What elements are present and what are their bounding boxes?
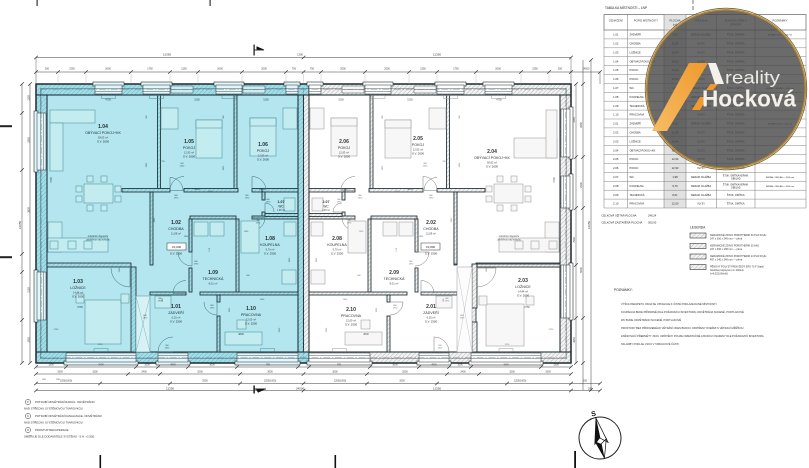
- svg-text:S.V. 2500: S.V. 2500: [170, 252, 182, 256]
- svg-text:OBÝVACÍ POKOJ+KK: OBÝVACÍ POKOJ+KK: [85, 131, 121, 135]
- svg-text:12650: 12650: [587, 220, 591, 229]
- svg-text:KERAM. OBKLAD v. 1500 mm: KERAM. OBKLAD v. 1500 mm: [766, 176, 795, 179]
- svg-text:2250: 2250: [532, 68, 538, 71]
- svg-text:POKOJ: POKOJ: [630, 157, 639, 161]
- svg-text:1.05: 1.05: [613, 68, 619, 72]
- svg-text:3850: 3850: [573, 337, 576, 343]
- svg-text:POTRUBÍ ODVĚTRÁNÍ RADIÁL. ODVĚ: POTRUBÍ ODVĚTRÁNÍ RADIÁL. ODVĚTRÁNO: [35, 399, 96, 404]
- svg-text:1300: 1300: [297, 53, 303, 57]
- svg-text:1250: 1250: [420, 68, 426, 71]
- svg-text:WC: WC: [278, 205, 284, 209]
- svg-text:3400: 3400: [503, 364, 509, 367]
- svg-text:7500: 7500: [49, 177, 53, 183]
- svg-text:3150: 3150: [263, 98, 269, 102]
- svg-text:4750: 4750: [496, 98, 502, 102]
- svg-text:PROSTUP REKUPERACE: PROSTUP REKUPERACE: [35, 428, 69, 432]
- svg-text:2.01: 2.01: [426, 304, 436, 310]
- svg-text:2000: 2000: [105, 68, 111, 71]
- svg-text:POKOJ: POKOJ: [630, 68, 639, 72]
- svg-text:2.02: 2.02: [613, 130, 619, 134]
- svg-text:1250: 1250: [181, 68, 187, 71]
- svg-text:S.V. 2500: S.V. 2500: [345, 322, 357, 326]
- svg-text:2.04: 2.04: [487, 149, 497, 155]
- svg-text:ŠTUK. OMÍTKA KERAM.: ŠTUK. OMÍTKA KERAM.: [723, 175, 749, 178]
- svg-text:CHODBA: CHODBA: [168, 227, 184, 231]
- svg-text:CHODBA: CHODBA: [423, 227, 439, 231]
- svg-text:7500: 7500: [552, 177, 556, 183]
- svg-text:1.04: 1.04: [98, 124, 108, 130]
- svg-text:1500: 1500: [57, 371, 63, 374]
- svg-text:PRACOVNA: PRACOVNA: [241, 313, 262, 317]
- svg-text:2.09: 2.09: [613, 193, 619, 197]
- svg-text:CHODBA: CHODBA: [630, 41, 641, 45]
- svg-text:S.V. 2500: S.V. 2500: [245, 321, 257, 325]
- svg-text:1.08: 1.08: [265, 236, 275, 242]
- svg-text:OBKLAD: OBKLAD: [731, 186, 741, 189]
- svg-text:POKOJ: POKOJ: [183, 146, 195, 150]
- svg-text:2.08: 2.08: [613, 184, 619, 188]
- svg-text:OBÝVACÍ POKOJ+KK: OBÝVACÍ POKOJ+KK: [474, 156, 510, 160]
- svg-text:S.V. 2600: S.V. 2600: [517, 293, 529, 297]
- svg-text:ŠTUK. OMÍTKA KERAM.: ŠTUK. OMÍTKA KERAM.: [723, 183, 749, 186]
- svg-text:300,00: 300,00: [648, 221, 657, 225]
- svg-text:246,24: 246,24: [648, 214, 657, 218]
- svg-text:S.V. 2500: S.V. 2500: [170, 319, 182, 323]
- svg-text:1.03: 1.03: [613, 50, 619, 54]
- svg-text:200: 200: [588, 388, 593, 391]
- svg-text:3150: 3150: [338, 98, 344, 102]
- svg-text:Hocková: Hocková: [702, 86, 796, 112]
- svg-text:ŠTUK. OMÍTKA: ŠTUK. OMÍTKA: [727, 203, 745, 206]
- svg-text:OBKLAD: OBKLAD: [731, 178, 741, 181]
- svg-text:1500: 1500: [342, 187, 348, 191]
- svg-text:KERAM. DLAŽBA: KERAM. DLAŽBA: [691, 176, 711, 179]
- svg-text:POPIS MÍSTNOSTI: POPIS MÍSTNOSTI: [634, 19, 658, 23]
- svg-text:1.04: 1.04: [613, 59, 619, 63]
- svg-text:±0,000: ±0,000: [426, 245, 435, 249]
- svg-text:R: R: [27, 428, 29, 432]
- svg-text:12,93: 12,93: [672, 157, 679, 161]
- svg-text:3750: 3750: [524, 305, 530, 309]
- svg-text:497 x 140 x 249 mm — pěna: 497 x 140 x 249 mm — pěna: [710, 258, 743, 261]
- svg-text:11350: 11350: [433, 53, 441, 57]
- svg-text:TECHNICKÁ: TECHNICKÁ: [630, 193, 645, 197]
- svg-text:S.V. 2600: S.V. 2600: [183, 154, 195, 158]
- svg-text:S.V. 2600: S.V. 2600: [412, 151, 424, 155]
- svg-text:VLYSY: VLYSY: [697, 167, 705, 170]
- svg-text:1.01: 1.01: [613, 33, 619, 37]
- svg-text:2000: 2000: [197, 371, 203, 374]
- svg-text:3000: 3000: [209, 364, 215, 367]
- svg-text:TECHNICKÁ: TECHNICKÁ: [203, 277, 224, 281]
- svg-text:2000: 2000: [399, 380, 405, 383]
- svg-text:2000: 2000: [402, 371, 408, 374]
- svg-text:PRACOVNA: PRACOVNA: [630, 113, 645, 117]
- svg-text:KERAM. DLAŽBA: KERAM. DLAŽBA: [691, 185, 711, 188]
- svg-text:2.05: 2.05: [413, 136, 423, 142]
- svg-text:750: 750: [337, 364, 342, 367]
- svg-text:1,98 m²: 1,98 m²: [277, 209, 285, 212]
- svg-text:1500: 1500: [259, 187, 265, 191]
- svg-text:3400: 3400: [98, 364, 104, 367]
- svg-text:±0,000: ±0,000: [172, 245, 181, 249]
- svg-text:1950: 1950: [28, 337, 31, 343]
- svg-text:11350: 11350: [166, 387, 174, 391]
- svg-text:4800: 4800: [363, 332, 369, 336]
- svg-text:S.V. 2600: S.V. 2600: [72, 294, 84, 298]
- svg-text:NAD STŘECHU SYSTÉMOVOU TVAROVK: NAD STŘECHU SYSTÉMOVOU TVAROVKOU: [24, 420, 83, 425]
- svg-text:KOUPELNA: KOUPELNA: [630, 184, 644, 188]
- svg-text:VLYSY: VLYSY: [697, 203, 705, 206]
- svg-text:1.06: 1.06: [258, 142, 268, 148]
- svg-text:2400: 2400: [141, 371, 147, 374]
- svg-text:11350: 11350: [433, 387, 441, 391]
- svg-text:24000: 24000: [583, 68, 591, 71]
- svg-text:1300: 1300: [48, 364, 54, 367]
- svg-text:odvětřeno nad střechu: odvětřeno nad střechu: [497, 239, 521, 242]
- svg-text:1500: 1500: [545, 371, 551, 374]
- svg-text:2.04: 2.04: [613, 148, 619, 152]
- svg-text:2150: 2150: [28, 287, 31, 293]
- svg-text:8,01: 8,01: [672, 193, 678, 197]
- svg-text:2.10: 2.10: [346, 307, 356, 313]
- svg-text:S.V. 2600: S.V. 2600: [486, 164, 498, 168]
- svg-text:1.02: 1.02: [171, 220, 181, 226]
- svg-text:POKOJ: POKOJ: [338, 146, 350, 150]
- svg-text:24000: 24000: [296, 387, 305, 391]
- svg-text:WC: WC: [630, 175, 634, 179]
- svg-text:3750: 3750: [77, 305, 83, 309]
- svg-text:2.05: 2.05: [613, 157, 619, 161]
- svg-text:2.08: 2.08: [332, 236, 342, 242]
- svg-text:12,93: 12,93: [672, 166, 679, 170]
- svg-text:1.06: 1.06: [613, 77, 619, 81]
- svg-text:2000: 2000: [384, 68, 390, 71]
- svg-text:1300: 1300: [28, 95, 31, 101]
- svg-text:TECHNICKÁ: TECHNICKÁ: [630, 104, 645, 108]
- svg-text:1250(1000): 1250(1000): [334, 380, 346, 383]
- svg-text:LOŽNICE: LOŽNICE: [515, 284, 531, 289]
- svg-text:4800: 4800: [238, 332, 244, 336]
- svg-text:1750: 1750: [453, 68, 459, 71]
- svg-text:K: K: [27, 414, 29, 418]
- svg-text:1,98: 1,98: [672, 175, 678, 179]
- svg-text:1.07: 1.07: [613, 86, 619, 90]
- svg-text:2.06: 2.06: [339, 139, 349, 145]
- svg-text:2000: 2000: [217, 68, 223, 71]
- svg-text:1.01: 1.01: [171, 304, 181, 310]
- svg-text:S.V. 2600: S.V. 2600: [257, 157, 269, 161]
- svg-text:2.06: 2.06: [613, 166, 619, 170]
- svg-text:1000: 1000: [144, 364, 150, 367]
- svg-text:11,88 m²: 11,88 m²: [426, 232, 436, 236]
- svg-text:1.09: 1.09: [208, 270, 218, 276]
- svg-text:SMĚŘUJE DLE DODAVATELE SYSTÉMU: SMĚŘUJE DLE DODAVATELE SYSTÉMU - S.H. +2…: [24, 434, 95, 439]
- svg-text:1.03: 1.03: [73, 279, 83, 285]
- svg-text:2400: 2400: [460, 371, 466, 374]
- svg-text:3000: 3000: [332, 371, 338, 374]
- svg-text:3800: 3800: [28, 207, 31, 213]
- svg-text:P: P: [27, 400, 29, 404]
- svg-text:12050: 12050: [18, 220, 22, 229]
- svg-text:1.07: 1.07: [278, 200, 285, 204]
- svg-text:KERAM. OBKLAD v. 2600 mm: KERAM. OBKLAD v. 2600 mm: [766, 185, 795, 188]
- svg-text:2.01: 2.01: [613, 122, 619, 126]
- svg-text:λ=0,032 [W/mK]: λ=0,032 [W/mK]: [710, 272, 728, 275]
- svg-text:2000: 2000: [495, 68, 501, 71]
- svg-text:odvětřeno nad střechu: odvětřeno nad střechu: [86, 239, 110, 242]
- svg-text:ZÁDVEŘÍ: ZÁDVEŘÍ: [168, 310, 184, 315]
- svg-text:200: 200: [45, 68, 50, 71]
- svg-text:POZNÁMKY:: POZNÁMKY:: [614, 288, 633, 292]
- svg-text:1300: 1300: [553, 364, 559, 367]
- svg-text:1.09: 1.09: [613, 104, 619, 108]
- svg-text:200: 200: [558, 68, 563, 71]
- svg-text:KOUPELNA: KOUPELNA: [327, 243, 347, 247]
- svg-text:1.02: 1.02: [613, 41, 619, 45]
- svg-text:7500: 7500: [573, 237, 576, 243]
- svg-text:CHODBA: CHODBA: [630, 130, 641, 134]
- svg-text:S.V. 2500: S.V. 2500: [425, 319, 437, 323]
- svg-text:1.08: 1.08: [613, 95, 619, 99]
- svg-text:1250(1000): 1250(1000): [514, 380, 526, 383]
- svg-text:2550: 2550: [28, 137, 31, 143]
- svg-text:LOŽNICE: LOŽNICE: [70, 285, 86, 290]
- svg-text:1.10: 1.10: [246, 306, 256, 312]
- svg-text:12,00: 12,00: [672, 202, 679, 206]
- svg-text:3150: 3150: [407, 98, 413, 102]
- svg-text:2000: 2000: [340, 68, 346, 71]
- svg-text:2.07: 2.07: [323, 200, 330, 204]
- svg-text:S.V. 2600: S.V. 2600: [97, 139, 109, 143]
- svg-text:9,70: 9,70: [672, 184, 678, 188]
- svg-text:2.02: 2.02: [426, 220, 436, 226]
- svg-text:750: 750: [266, 364, 271, 367]
- svg-text:2000: 2000: [202, 380, 208, 383]
- svg-text:2.09: 2.09: [389, 270, 399, 276]
- svg-text:1.05: 1.05: [184, 139, 194, 145]
- svg-text:POKOJ: POKOJ: [257, 149, 269, 153]
- svg-text:2.03: 2.03: [613, 139, 619, 143]
- svg-text:KOUPELNA: KOUPELNA: [630, 95, 644, 99]
- svg-text:4500: 4500: [170, 364, 176, 367]
- svg-text:NAD STŘECHU SYSTÉMOVOU TVAROVK: NAD STŘECHU SYSTÉMOVOU TVAROVKOU: [24, 406, 83, 411]
- svg-text:LEGENDA: LEGENDA: [690, 226, 706, 230]
- svg-text:PRACOVNA: PRACOVNA: [341, 314, 362, 318]
- svg-text:S.V. 2500: S.V. 2500: [331, 251, 343, 255]
- svg-text:750: 750: [292, 68, 297, 71]
- svg-text:OBÝVACÍ POKOJ+KK: OBÝVACÍ POKOJ+KK: [630, 148, 656, 152]
- svg-text:200: 200: [583, 380, 588, 383]
- svg-text:S.V. 2500: S.V. 2500: [425, 252, 437, 256]
- svg-text:TECHNICKÁ: TECHNICKÁ: [384, 277, 405, 281]
- svg-text:2300: 2300: [579, 182, 583, 188]
- svg-text:247 x 300 x 249 mm — pěna: 247 x 300 x 249 mm — pěna: [710, 237, 743, 240]
- svg-text:1500: 1500: [509, 371, 515, 374]
- svg-text:1,98 m²: 1,98 m²: [322, 209, 330, 212]
- svg-text:8,01 m²: 8,01 m²: [209, 282, 218, 286]
- svg-text:S.V. 2500: S.V. 2500: [264, 251, 276, 255]
- svg-text:1.10: 1.10: [613, 113, 619, 117]
- svg-text:5000: 5000: [579, 267, 583, 273]
- svg-text:3000: 3000: [267, 371, 273, 374]
- svg-text:POTRUBÍ ODVĚTRÁNÍ KANALIZACE,: POTRUBÍ ODVĚTRÁNÍ KANALIZACE, ODVĚTRÁNO: [35, 413, 103, 418]
- svg-text:WC: WC: [323, 205, 329, 209]
- svg-text:4750: 4750: [105, 98, 111, 102]
- svg-text:1250(1000): 1250(1000): [60, 380, 72, 383]
- svg-text:2.10: 2.10: [613, 202, 619, 206]
- svg-text:KOUPELNA: KOUPELNA: [260, 243, 280, 247]
- svg-text:1500: 1500: [92, 371, 98, 374]
- svg-text:POZNÁMKY: POZNÁMKY: [772, 19, 787, 23]
- svg-text:2.03: 2.03: [518, 278, 528, 284]
- svg-text:3750: 3750: [573, 117, 576, 123]
- svg-text:1750: 1750: [147, 68, 153, 71]
- svg-text:11,88 m²: 11,88 m²: [171, 232, 181, 236]
- svg-text:ZÁDVEŘÍ: ZÁDVEŘÍ: [423, 310, 439, 315]
- svg-text:POKOJ: POKOJ: [630, 166, 639, 170]
- svg-text:750: 750: [310, 68, 315, 71]
- svg-text:POKOJ: POKOJ: [412, 143, 424, 147]
- svg-text:1000: 1000: [457, 364, 463, 367]
- svg-text:4600: 4600: [407, 187, 413, 191]
- svg-text:2.07: 2.07: [613, 175, 619, 179]
- svg-text:3000: 3000: [392, 364, 398, 367]
- svg-text:3350: 3350: [579, 122, 583, 128]
- svg-text:11350: 11350: [163, 53, 171, 57]
- svg-text:POKOJ: POKOJ: [630, 77, 639, 81]
- svg-text:KERAM. DLAŽBA: KERAM. DLAŽBA: [691, 194, 711, 197]
- svg-text:2250: 2250: [69, 68, 75, 71]
- svg-text:PLOCHA: PLOCHA: [669, 19, 680, 23]
- svg-text:4500: 4500: [431, 364, 437, 367]
- svg-text:4600: 4600: [194, 187, 200, 191]
- svg-text:ŠTUK. OMÍTKA: ŠTUK. OMÍTKA: [727, 194, 745, 197]
- svg-text:S.V. 2600: S.V. 2600: [338, 154, 350, 158]
- svg-text:PRACOVNA: PRACOVNA: [630, 202, 645, 206]
- svg-text:WC: WC: [630, 86, 634, 90]
- svg-text:8,01 m²: 8,01 m²: [390, 282, 399, 286]
- svg-text:TABULKA MÍSTNOSTÍ – 1NP: TABULKA MÍSTNOSTÍ – 1NP: [605, 6, 647, 10]
- svg-text:247 x 300 x 238 mm — pěna: 247 x 300 x 238 mm — pěna: [710, 248, 743, 251]
- svg-text:2000: 2000: [261, 68, 267, 71]
- svg-text:1250(1000): 1250(1000): [264, 380, 276, 383]
- svg-text:3150: 3150: [194, 98, 200, 102]
